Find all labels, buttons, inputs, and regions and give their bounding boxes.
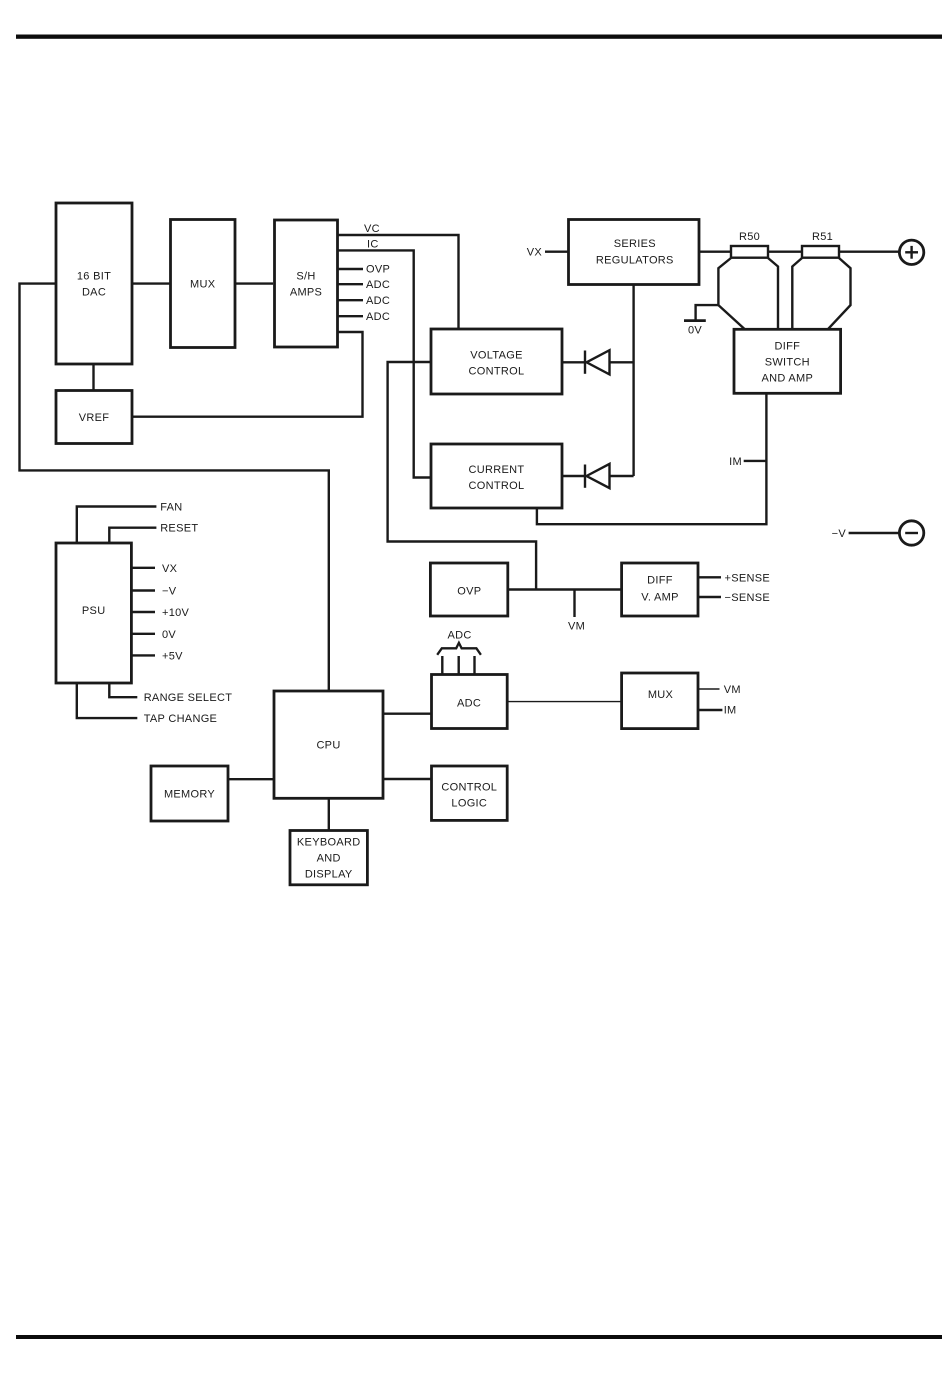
wire PSU RANGE SELECT xyxy=(109,683,137,697)
svg-text:RESET: RESET xyxy=(160,523,198,535)
wire R51 sense inner xyxy=(792,258,802,329)
wire -SENSE stub xyxy=(698,596,721,598)
box VREF xyxy=(56,391,132,444)
svg-text:VM: VM xyxy=(568,621,585,633)
wire series reg output xyxy=(699,250,731,252)
box ADC xyxy=(432,675,508,729)
svg-text:IM: IM xyxy=(724,705,737,717)
wire ADC stub 3 xyxy=(337,315,363,317)
wire VM stub xyxy=(573,590,575,618)
wire between R50 R51 xyxy=(768,250,802,252)
ADC brace xyxy=(437,643,481,655)
wire diode2 to rail xyxy=(609,475,634,477)
wire ADC stub 2 xyxy=(337,299,363,301)
box CURRENT CONTROL xyxy=(431,444,562,508)
box MUX bottom xyxy=(622,673,698,729)
ADC pin 3 xyxy=(473,656,475,675)
svg-text:AND: AND xyxy=(317,853,341,865)
wire DAC to MUX xyxy=(132,282,171,284)
svg-text:VC: VC xyxy=(364,223,380,235)
svg-text:ADC: ADC xyxy=(447,630,471,642)
box DIFF SWITCH AND AMP xyxy=(734,329,841,393)
wire IM stub xyxy=(744,460,767,462)
svg-text:ADC: ADC xyxy=(366,295,390,307)
svg-text:IM: IM xyxy=(729,456,742,468)
svg-text:CURRENT: CURRENT xyxy=(469,464,525,476)
wire VX input xyxy=(545,250,569,252)
box 16 BIT DAC xyxy=(56,203,132,364)
box OVP xyxy=(430,563,507,616)
wire PSU VX stub xyxy=(131,567,155,569)
wire voltage control to diode xyxy=(562,361,586,363)
top rule xyxy=(16,35,942,39)
ADC pin 2 xyxy=(458,656,460,675)
svg-text:DIFF: DIFF xyxy=(647,575,673,587)
svg-text:ADC: ADC xyxy=(366,311,390,323)
box PSU xyxy=(56,543,131,683)
svg-text:REGULATORS: REGULATORS xyxy=(596,254,674,266)
svg-text:0V: 0V xyxy=(688,325,702,337)
plus output terminal xyxy=(899,240,923,264)
svg-text:+5V: +5V xyxy=(162,650,183,662)
svg-text:IC: IC xyxy=(367,239,379,251)
svg-text:VX: VX xyxy=(162,563,178,575)
svg-text:+SENSE: +SENSE xyxy=(725,572,771,584)
wire PSU -V stub xyxy=(131,589,155,591)
wire PSU 0V stub xyxy=(131,633,155,635)
diode D1 voltage xyxy=(585,350,610,374)
wire CPU to CONTROL LOGIC xyxy=(383,778,432,780)
wire ADC to MUX2 (thin) xyxy=(507,701,621,703)
box VOLTAGE CONTROL xyxy=(431,329,562,394)
svg-text:MEMORY: MEMORY xyxy=(164,789,215,801)
wire PSU +10V stub xyxy=(131,611,155,613)
svg-text:PSU: PSU xyxy=(82,605,106,617)
wire OVP stub xyxy=(337,268,363,270)
svg-text:+10V: +10V xyxy=(162,607,190,619)
svg-text:VX: VX xyxy=(527,247,543,259)
svg-text:DIFF: DIFF xyxy=(774,340,800,352)
svg-text:VM: VM xyxy=(724,684,741,696)
svg-text:SERIES: SERIES xyxy=(614,238,656,250)
wire VM feedback xyxy=(388,362,536,590)
svg-text:−SENSE: −SENSE xyxy=(725,592,771,604)
svg-text:16 BIT: 16 BIT xyxy=(77,271,111,283)
wire ADC stub 1 xyxy=(337,283,363,285)
svg-text:DISPLAY: DISPLAY xyxy=(305,869,353,881)
wire R51 to plus terminal xyxy=(839,250,899,252)
box CPU xyxy=(274,691,383,798)
svg-text:AND AMP: AND AMP xyxy=(761,372,813,384)
box KEYBOARD AND DISPLAY xyxy=(290,831,367,885)
wire VC net xyxy=(337,235,459,329)
svg-text:RANGE SELECT: RANGE SELECT xyxy=(144,692,233,704)
wire R51 sense outer xyxy=(828,258,851,329)
svg-text:R50: R50 xyxy=(739,231,760,243)
svg-text:S/H: S/H xyxy=(296,271,315,283)
svg-text:OVP: OVP xyxy=(457,586,481,598)
svg-text:CONTROL: CONTROL xyxy=(441,782,497,794)
wire MUX2 IM stub xyxy=(698,709,722,711)
wire DAC left to CPU rail xyxy=(20,284,329,691)
wire MEMORY to CPU xyxy=(228,778,274,780)
svg-text:SWITCH: SWITCH xyxy=(765,356,810,368)
wire DAC to VREF xyxy=(92,364,94,391)
wire 0V ground xyxy=(696,305,719,321)
ground bar xyxy=(684,319,706,322)
wire +SENSE stub xyxy=(698,576,721,578)
svg-text:KEYBOARD: KEYBOARD xyxy=(297,837,361,849)
bottom rule xyxy=(16,1335,942,1339)
svg-text:CPU: CPU xyxy=(316,740,340,752)
wire PSU FAN xyxy=(77,507,157,544)
wire current control bottom to diff amp IM xyxy=(537,393,767,524)
svg-text:DAC: DAC xyxy=(82,287,106,299)
wire diode to rail xyxy=(609,361,634,363)
diode D2 current xyxy=(585,464,610,488)
wire OVP to diff v amp xyxy=(508,588,622,590)
svg-text:FAN: FAN xyxy=(160,502,182,514)
svg-text:VREF: VREF xyxy=(79,412,110,424)
minus output terminal xyxy=(899,521,923,545)
svg-text:OVP: OVP xyxy=(366,264,390,276)
svg-text:TAP CHANGE: TAP CHANGE xyxy=(144,713,218,725)
wire VREF to S/H AMPS xyxy=(132,332,363,417)
wire MUX to S/H xyxy=(235,282,273,284)
wire IC net xyxy=(337,250,431,477)
svg-text:−V: −V xyxy=(162,586,177,598)
svg-text:AMPS: AMPS xyxy=(290,287,322,299)
ADC pin 1 xyxy=(441,656,443,675)
svg-text:CONTROL: CONTROL xyxy=(469,480,525,492)
wire series reg bottom rail xyxy=(632,285,634,477)
wire MUX2 VM stub (thin) xyxy=(698,688,720,690)
wire R50 sense inner xyxy=(768,258,778,329)
box CONTROL LOGIC xyxy=(432,766,508,820)
resistor R50 xyxy=(731,246,768,258)
svg-text:−V: −V xyxy=(832,528,847,540)
wire PSU +5V stub xyxy=(131,654,155,656)
svg-text:MUX: MUX xyxy=(190,279,216,291)
svg-text:VOLTAGE: VOLTAGE xyxy=(470,350,522,362)
box DIFF V. AMP xyxy=(622,563,698,616)
wire PSU RESET xyxy=(109,528,156,543)
wire current control to diode xyxy=(562,475,586,477)
box S/H AMPS xyxy=(275,220,338,347)
resistor R51 xyxy=(802,246,839,258)
svg-text:V. AMP: V. AMP xyxy=(641,591,678,603)
wire CPU to KEYBOARD xyxy=(328,798,330,830)
svg-text:ADC: ADC xyxy=(457,698,481,710)
svg-text:MUX: MUX xyxy=(648,689,674,701)
wire CPU to ADC xyxy=(383,713,432,715)
svg-text:LOGIC: LOGIC xyxy=(451,798,487,810)
svg-text:0V: 0V xyxy=(162,629,176,641)
svg-text:R51: R51 xyxy=(812,231,833,243)
box MUX top xyxy=(171,220,236,348)
svg-text:CONTROL: CONTROL xyxy=(469,366,525,378)
svg-text:ADC: ADC xyxy=(366,279,390,291)
wire -V terminal xyxy=(849,532,899,534)
box SERIES REGULATORS xyxy=(569,220,700,285)
wire R50 sense outer xyxy=(718,258,744,329)
box MEMORY xyxy=(151,766,228,821)
wire PSU TAP CHANGE xyxy=(77,683,138,718)
